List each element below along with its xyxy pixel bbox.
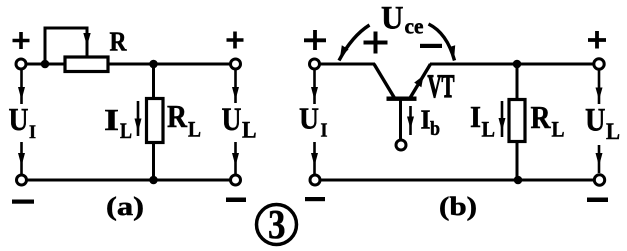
terminal - (b) output bottom [587,198,608,203]
transistor VT base bar [387,97,417,101]
label + (transistor) [364,32,388,54]
wire top-left (a) [21,63,64,66]
svg-text:I: I [470,99,481,134]
svg-text:ce: ce [405,14,424,39]
base terminal circle [396,140,406,150]
junction dot RL top (b) [513,60,522,69]
voltage arrow U_I upper (b) [313,70,316,104]
terminal + (a) input top [13,32,30,49]
junction dot RL bottom (b) [514,176,523,185]
resistor R_L (a) [147,99,164,143]
svg-text:U: U [585,103,606,139]
junction dot wiper tap [41,60,50,69]
transistor VT collector line [374,64,395,98]
svg-text:L: L [552,117,565,142]
junction dot RL bottom (a) [149,176,158,185]
terminal circle (b) input bottom [310,175,320,185]
svg-text:L: L [188,117,201,142]
figure number circled 3 [257,205,297,245]
svg-text:U: U [381,1,404,37]
voltage arrow U_L lower (a) [234,142,237,174]
U_ce arc right with arrow [429,24,455,61]
terminal circle (a) input top [16,59,26,69]
label - (transistor) [420,44,442,48]
resistor R (a) [65,57,108,72]
current arrow I_b [409,106,412,135]
svg-text:L: L [120,118,132,143]
wire top-right (b) [430,63,599,66]
wire RL upper stub (b) [516,64,519,101]
svg-text:(a): (a) [106,192,144,221]
terminal circle (b) input top [310,59,320,69]
svg-text:b: b [430,118,440,140]
wire RL lower stub (b) [516,140,519,180]
svg-text:L: L [606,119,620,144]
voltage arrow U_I lower (a) [20,142,23,174]
svg-text:I: I [104,102,119,137]
svg-text:I: I [421,105,431,135]
terminal - (a) output bottom [226,198,246,203]
svg-text:I: I [321,120,328,142]
svg-text:I: I [29,122,36,143]
wire RL upper stub (a) [152,64,155,100]
svg-text:(b): (b) [439,192,477,221]
current arrow I_L (b) [501,101,504,137]
terminal + (b) output top [588,31,606,49]
voltage arrow U_I lower (b) [313,142,316,174]
U_ce arc left with arrow [339,25,370,61]
junction dot RL top (a) [149,60,158,69]
terminal + (b) input top [304,30,326,50]
terminal circle (b) output top [594,59,604,69]
terminal circle (b) output bottom [594,175,604,185]
wire bottom (b) [315,179,600,182]
svg-text:U: U [222,102,242,138]
wiper arrowhead [83,33,90,46]
svg-text:R: R [167,98,188,134]
wire RL lower stub (a) [152,141,155,180]
svg-text:U: U [299,101,319,136]
terminal circle (a) input bottom [17,175,27,185]
voltage arrow U_L lower (b) [598,145,601,173]
resistor R_L (b) [509,100,525,142]
wire top-left (b) [315,63,376,66]
wire top-right (a) [109,63,235,66]
svg-text:R: R [531,99,552,135]
svg-text:R: R [110,27,127,57]
voltage arrow U_L upper (b) [598,71,601,105]
voltage arrow U_L upper (a) [234,70,237,103]
terminal circle (a) output bottom [231,175,241,185]
svg-text:L: L [242,118,257,143]
svg-text:VT: VT [428,69,455,105]
transistor VT emitter line [410,64,431,98]
svg-text:3: 3 [268,201,286,247]
transistor VT emitter arrowhead [414,76,423,88]
terminal - (a) input bottom [12,200,34,204]
terminal + (a) output top [227,32,244,49]
terminal - (b) input bottom [305,197,325,201]
svg-text:L: L [482,117,496,142]
rheostat wiper wire over R [45,28,87,64]
terminal circle (a) output top [231,59,241,69]
wire bottom (a) [21,179,235,182]
voltage arrow U_I upper (a) [20,70,23,104]
transistor base wire [399,101,402,140]
svg-text:U: U [9,101,29,137]
current arrow I_L (a) [137,101,140,136]
